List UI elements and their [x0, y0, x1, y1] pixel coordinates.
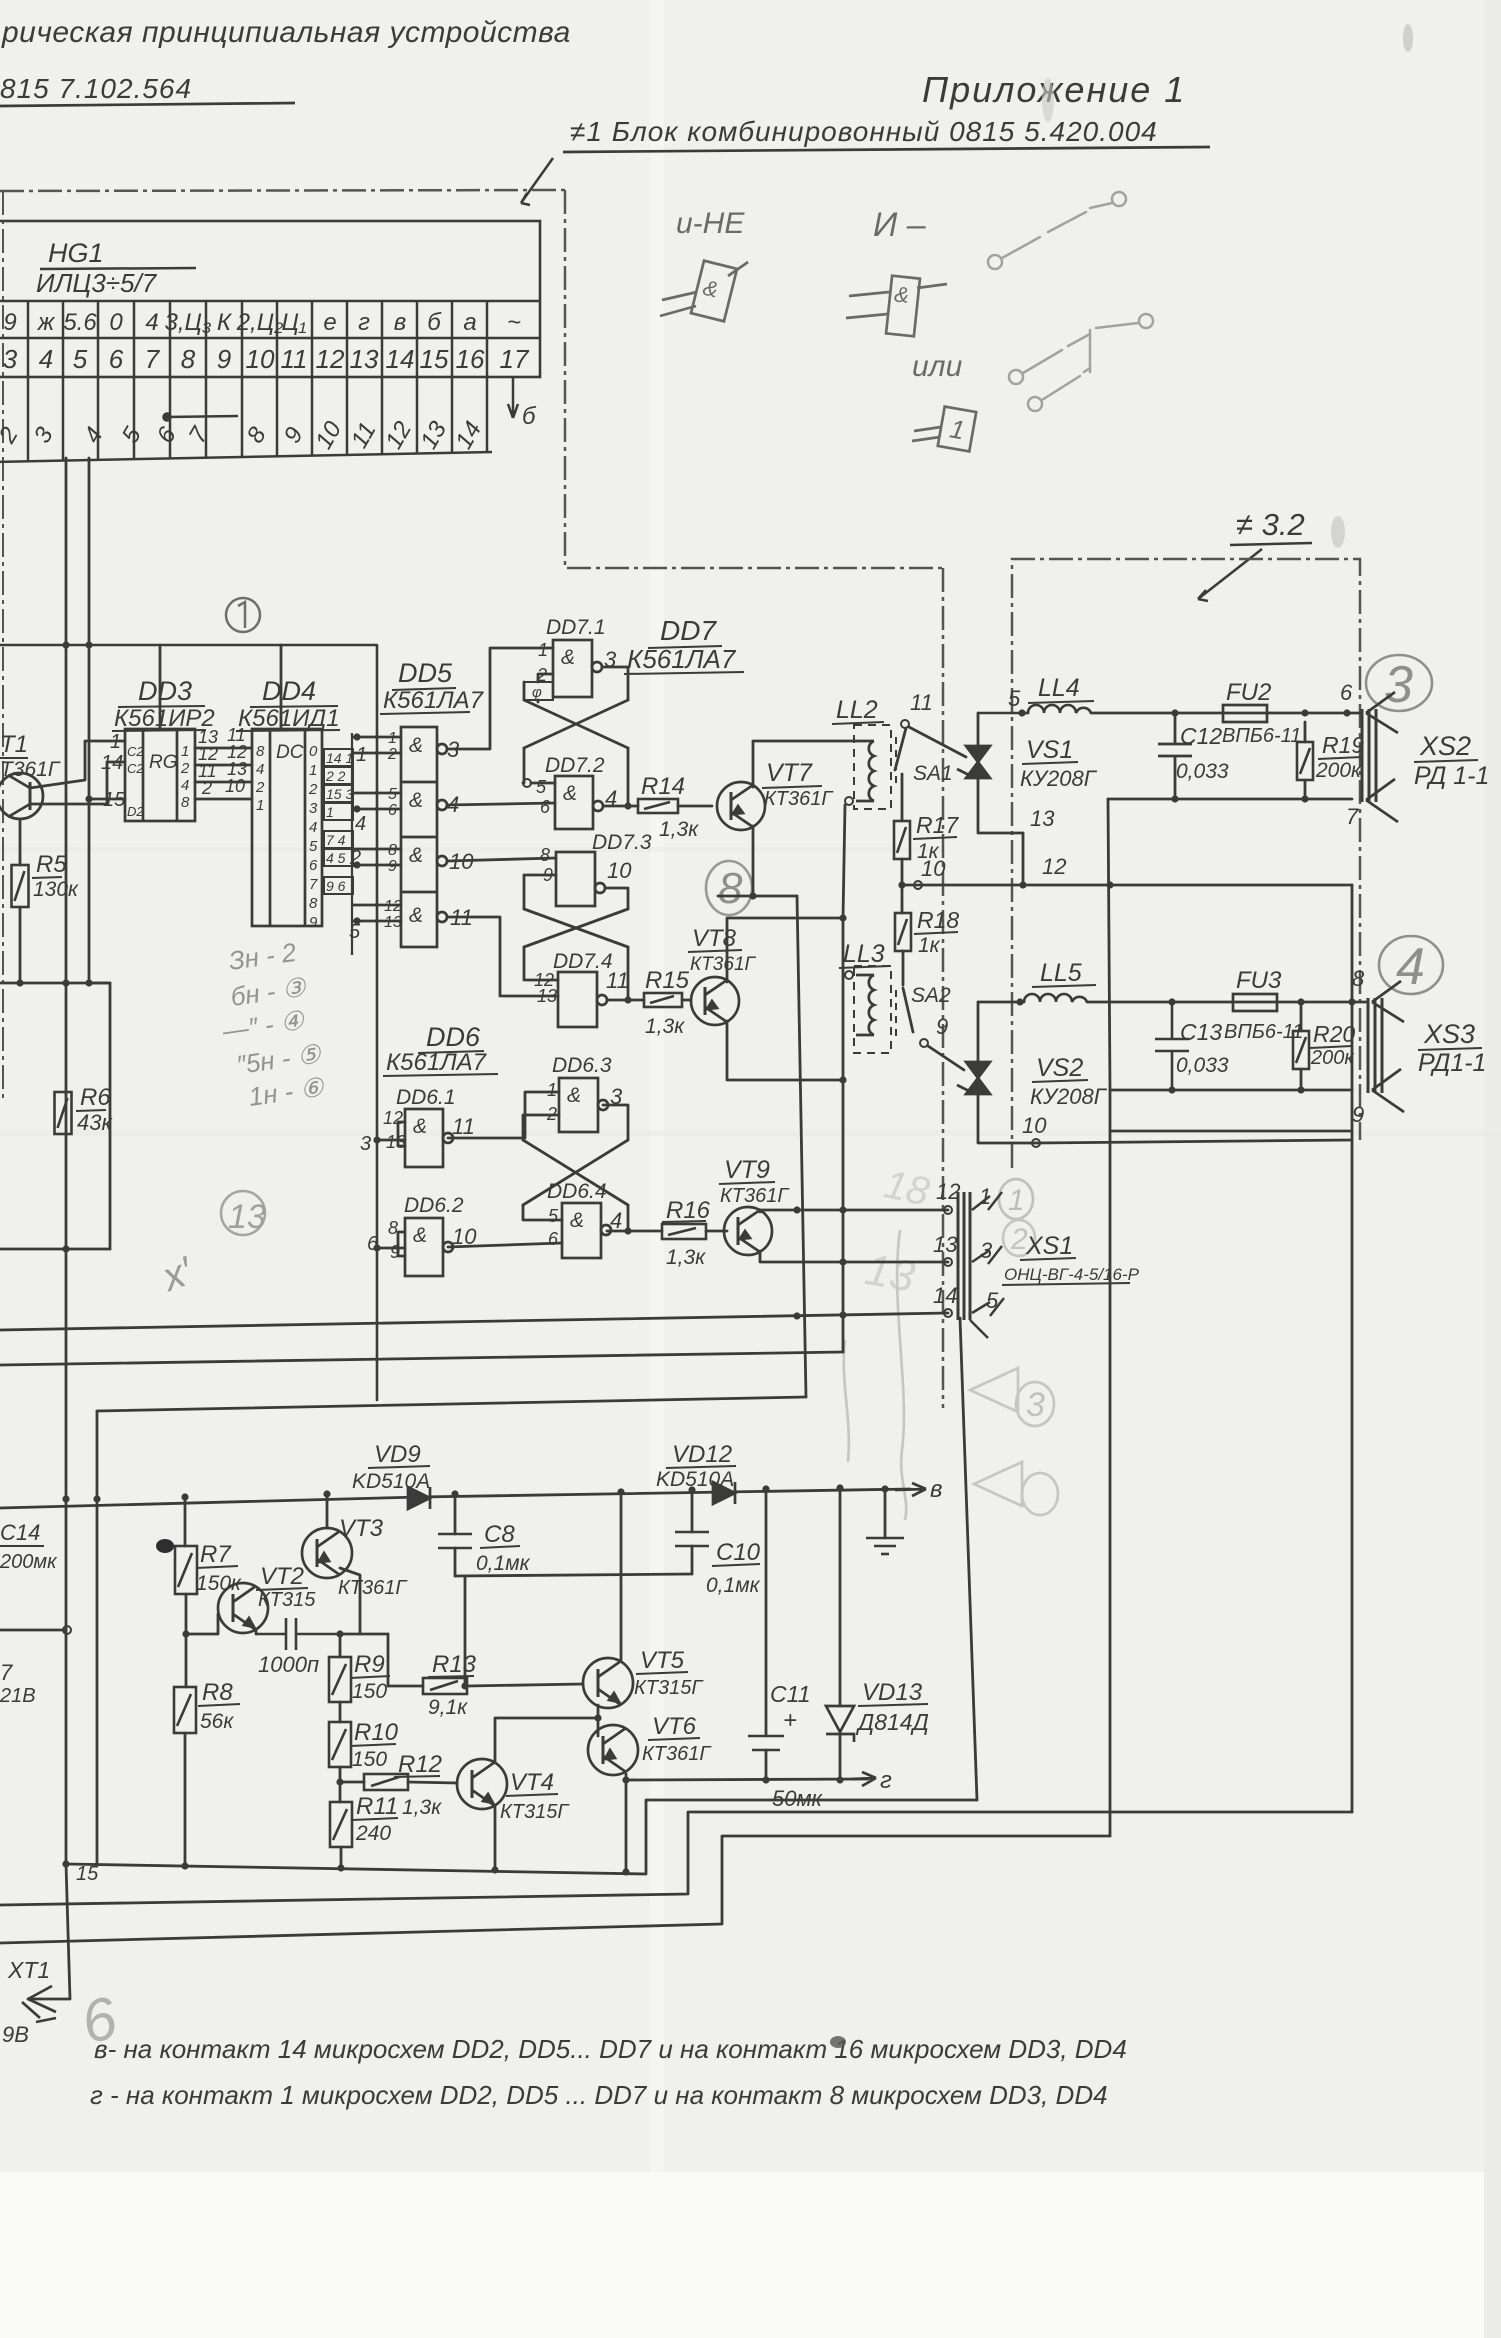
svg-text:56к: 56к [200, 1710, 234, 1733]
svg-text:Приложение 1: Приложение 1 [922, 69, 1186, 110]
wire C8 down [454, 1548, 457, 1576]
svg-text:3: 3 [309, 800, 318, 817]
svg-text:6: 6 [548, 1229, 559, 1249]
svg-text:R5: R5 [36, 851, 67, 878]
fuse FU3 [1233, 994, 1277, 1011]
junction DD7.2 out [624, 802, 631, 809]
wire phi box to cross [523, 682, 526, 700]
wire R7 to R8 [185, 1594, 188, 1687]
svg-text:ИЛЦ3÷5/7: ИЛЦ3÷5/7 [36, 268, 158, 298]
wire DD6.3 pin2 from cross [523, 1115, 559, 1140]
wire VS1 anode to node 5 [978, 712, 1022, 715]
svg-text:R14: R14 [641, 773, 685, 800]
wire VT8 emitter to V2 [727, 1021, 843, 1080]
resistor R7 body [175, 1546, 197, 1594]
svg-text:VT7: VT7 [766, 759, 813, 787]
svg-text:0,033: 0,033 [1176, 1054, 1229, 1077]
hand sketch OR box [912, 407, 976, 452]
wire vertical V1 emitter bus [797, 896, 806, 1397]
svg-text:815 7.102.564: 815 7.102.564 [0, 73, 192, 104]
terminal SA1 contact 11 [901, 720, 909, 728]
underline doc number [0, 103, 295, 106]
wire SA1 blade [895, 728, 906, 770]
diode VD12 [713, 1482, 735, 1504]
display HG1 outer box [0, 221, 540, 377]
wire VT1 emitter to R5 [19, 819, 22, 865]
svg-text:0,033: 0,033 [1176, 760, 1229, 783]
junction bus/DD6.1 [373, 1136, 380, 1143]
wires to DD5 gate2 inputs [353, 793, 401, 809]
pencil notes near DD4 [220, 937, 327, 1112]
svg-text:6: 6 [388, 802, 397, 819]
wire W2 mid [1091, 712, 1223, 715]
transistor VT3 [302, 1528, 352, 1578]
wire x97 down to VD bus [96, 1411, 99, 1864]
svg-text:8: 8 [181, 344, 196, 374]
svg-text:C8: C8 [484, 1521, 515, 1548]
svg-text:13: 13 [384, 914, 402, 931]
svg-text:9: 9 [217, 344, 231, 374]
svg-text:13: 13 [862, 1245, 919, 1302]
svg-text:XS1: XS1 [1025, 1232, 1073, 1260]
resistor R11 body [330, 1802, 352, 1847]
block 1 dash-dot border right lower [942, 568, 945, 1408]
svg-text:200мк: 200мк [0, 1551, 58, 1573]
svg-text:&: & [409, 904, 423, 927]
svg-text:21B: 21B [0, 1685, 36, 1707]
wire R11 to bus E [340, 1847, 343, 1868]
wire left loop down [1108, 799, 1110, 1090]
wire DD5 out11 to DD7.4 pin13 [447, 917, 558, 996]
svg-text:рическая принципиальная устрой: рическая принципиальная устройства [1, 16, 571, 49]
wire VS2 to LL5 [978, 1001, 1020, 1004]
pointer line to block 3.2 [1198, 549, 1262, 601]
wire vertical V2 upper [843, 805, 845, 918]
svg-text:5: 5 [548, 1206, 559, 1226]
svg-text:1: 1 [538, 640, 548, 660]
svg-text:KD510A: KD510A [352, 1470, 430, 1493]
terminal LL2 bottom [845, 797, 853, 805]
svg-text:1: 1 [326, 804, 334, 820]
svg-text:2: 2 [308, 781, 318, 798]
wire VS2 cathode to 10 [978, 1094, 1036, 1143]
hand sketch NAND box [660, 261, 748, 322]
wire bus2 long [0, 1352, 843, 1365]
svg-text:&: & [570, 1209, 584, 1232]
svg-text:DD3: DD3 [138, 676, 192, 706]
svg-text:1к: 1к [918, 934, 941, 957]
resistor R15 body [644, 993, 682, 1007]
wire C8-C10 return [455, 1574, 692, 1576]
svg-text:FU3: FU3 [1236, 967, 1282, 994]
terminal DD7.2 pin5 [523, 779, 531, 787]
wire R10-R11 [339, 1767, 342, 1802]
wire R9-R10 [339, 1702, 342, 1722]
svg-text:&: & [563, 782, 577, 805]
svg-text:50мк: 50мк [772, 1786, 824, 1811]
svg-text:13: 13 [933, 1232, 958, 1257]
wire to R9 [339, 1634, 342, 1657]
svg-text:2 2: 2 2 [325, 768, 346, 784]
svg-text:LL5: LL5 [1040, 959, 1082, 987]
gate DD6.2 [405, 1218, 453, 1276]
transistor VT6 [588, 1725, 638, 1775]
svg-text:&: & [413, 1224, 427, 1247]
wire DD7.1 pin2 to phi box [538, 674, 553, 682]
svg-text:~: ~ [507, 309, 521, 336]
svg-text:VD12: VD12 [672, 1441, 732, 1468]
svg-text:VT6: VT6 [652, 1713, 697, 1740]
wire to R12 [340, 1781, 364, 1784]
wire contact 9 to VS2 gate [928, 1046, 964, 1070]
svg-text:7: 7 [145, 344, 161, 374]
svg-text:4: 4 [309, 819, 317, 836]
svg-text:9: 9 [936, 1014, 948, 1039]
wire right vertical to bus B [1351, 885, 1354, 1812]
svg-text:DD7.2: DD7.2 [545, 754, 605, 777]
svg-text:6: 6 [309, 857, 318, 874]
wire cross DD6.3-DD6.4 [523, 1140, 628, 1205]
svg-text:4 5: 4 5 [326, 850, 346, 866]
svg-text:0: 0 [109, 309, 123, 336]
gate DD6.3 [559, 1078, 608, 1132]
wire box bottom [1110, 1130, 1352, 1133]
svg-text:2: 2 [387, 746, 397, 763]
inductor LL4 [1028, 705, 1091, 713]
svg-text:VT5: VT5 [640, 1647, 685, 1674]
wire VT9 emitter to XS1 13 [760, 1251, 948, 1262]
svg-text:9: 9 [309, 914, 318, 931]
wire bus to logic block [0, 645, 377, 1400]
svg-text:5: 5 [309, 838, 318, 855]
svg-text:&: & [413, 1115, 427, 1138]
wire VT3 collector down [340, 1568, 360, 1634]
inductor LL5 [1024, 994, 1087, 1002]
svg-text:1: 1 [110, 731, 121, 753]
capacitor C8 [438, 1534, 472, 1548]
pencil circled 4 (right) [1379, 936, 1443, 994]
wire bus to R7 [184, 1497, 187, 1546]
svg-text:VD9: VD9 [374, 1441, 421, 1468]
wire cross DD7.1-DD7.2 [524, 700, 628, 748]
wire horizontal y983 [0, 982, 110, 985]
resistor R17 body [894, 821, 910, 859]
resistor R5 body [12, 865, 29, 907]
wire W2 right [1267, 712, 1362, 715]
wires to DD5 gate4 inputs [353, 905, 401, 921]
resistor R14 body [638, 799, 678, 813]
wires to DD5 gate1 inputs [353, 737, 401, 753]
wire vertical VB [88, 458, 91, 983]
wire R5 to y983 [19, 907, 22, 983]
svg-text:9,1к: 9,1к [428, 1696, 468, 1719]
svg-text:SA2: SA2 [911, 984, 951, 1007]
svg-text:240: 240 [355, 1822, 391, 1845]
svg-text:XS2: XS2 [1419, 731, 1471, 761]
svg-text:е: е [323, 309, 336, 336]
svg-text:VT3: VT3 [339, 1515, 384, 1542]
wire VT7 collector to LL2 [753, 741, 864, 787]
block 1 dash-dot border left [2, 191, 4, 1100]
svg-text:3,Ц₃: 3,Ц₃ [165, 309, 212, 336]
svg-text:DD7.4: DD7.4 [553, 950, 613, 973]
wire return to VT5 base node [464, 1576, 467, 1686]
resistor R12 body [364, 1774, 408, 1790]
svg-text:11: 11 [606, 968, 629, 993]
svg-text:DD6.3: DD6.3 [552, 1054, 612, 1077]
svg-text:FU2: FU2 [1226, 679, 1271, 706]
svg-text:12: 12 [1042, 854, 1066, 879]
thyristor VS2 [957, 1062, 990, 1094]
junction R13/C8C10 return [461, 1682, 468, 1689]
svg-text:5: 5 [73, 344, 88, 374]
pencil circled node 13 [221, 1191, 265, 1235]
svg-text:б: б [427, 309, 442, 336]
svg-text:3: 3 [1384, 656, 1413, 714]
wire VT9 collector to XS1 12 [760, 1210, 948, 1212]
svg-text:КТ361Г: КТ361Г [720, 1185, 790, 1207]
hand sketch AND box [846, 276, 947, 337]
svg-text:DD7.1: DD7.1 [546, 616, 606, 639]
svg-text:КТ315Г: КТ315Г [500, 1801, 570, 1823]
junction VA/bus [62, 641, 69, 648]
svg-text:КТ315: КТ315 [258, 1589, 316, 1611]
svg-text:3: 3 [360, 1133, 371, 1155]
ink blot on note line [830, 2036, 846, 2048]
wire VT6 emitter to bus E [625, 1774, 628, 1872]
svg-text:8: 8 [256, 743, 265, 760]
svg-text:13: 13 [228, 1198, 266, 1236]
svg-text:7: 7 [0, 1660, 13, 1685]
transistor VT9 [724, 1207, 772, 1255]
svg-text:8: 8 [540, 845, 550, 865]
relay coil LL3 dashed frame [854, 966, 891, 1053]
switch SA2 link (dashed) [895, 990, 897, 1038]
svg-text:R8: R8 [202, 1679, 233, 1706]
connector XS2 bars [1362, 709, 1376, 802]
wire vertical V2 lower [842, 918, 845, 1352]
display lead cells below [0, 377, 492, 462]
svg-text:1,3к: 1,3к [659, 818, 699, 841]
wire R19 leads [1304, 722, 1307, 799]
wire R13 to VT5 base [467, 1684, 583, 1686]
svg-text:2: 2 [255, 779, 265, 796]
gate DD7.2 [555, 776, 603, 829]
wire DD5 out3 to DD7.1 [447, 648, 553, 749]
svg-text:VT8: VT8 [692, 925, 737, 952]
diode VD9 [408, 1487, 430, 1509]
wire C10 down [691, 1546, 694, 1574]
wire cross to DD7.4 pin12 [524, 947, 558, 980]
svg-text:DD6.1: DD6.1 [396, 1086, 456, 1109]
wire DD4 top to bus [280, 645, 283, 729]
svg-text:&: & [561, 646, 575, 669]
svg-text:R7: R7 [200, 1541, 232, 1568]
svg-text:≠1 Блок комбинировонный 081: ≠1 Блок комбинировонный 0815 5.420.004 [570, 116, 1158, 147]
svg-text:4: 4 [1396, 938, 1425, 996]
svg-text:8: 8 [181, 794, 190, 811]
svg-text:R18: R18 [917, 907, 959, 933]
capacitor C12 [1158, 713, 1192, 799]
zener diode VD13 [826, 1706, 854, 1742]
wire R16 to VT9 base [706, 1230, 727, 1233]
svg-text:5: 5 [349, 921, 361, 943]
svg-text:DD7.3: DD7.3 [592, 831, 652, 854]
transistor VT7 [717, 782, 765, 830]
svg-text:11: 11 [281, 344, 308, 374]
wire VD bus [0, 1489, 910, 1508]
svg-text:и-НЕ: и-НЕ [676, 207, 745, 240]
wire contact 11 to VS1 gate [909, 727, 966, 757]
svg-text:&: & [893, 281, 910, 307]
svg-text:5.6: 5.6 [63, 309, 97, 336]
wire vertical at mini box column [351, 733, 353, 955]
svg-text:9: 9 [388, 858, 397, 875]
wire W4 mid [1087, 1001, 1233, 1004]
svg-text:KD510A: KD510A [656, 1468, 734, 1491]
transistor VT1 [0, 773, 43, 819]
wire bus A staircase [66, 1800, 977, 1874]
svg-text:10: 10 [607, 858, 632, 883]
svg-text:7 4: 7 4 [326, 832, 346, 848]
svg-text:&: & [567, 1084, 581, 1107]
IC DD5 gate column [401, 727, 447, 947]
relay coil LL2 dashed frame [854, 725, 891, 809]
svg-text:в: в [930, 1476, 943, 1503]
svg-text:17: 17 [500, 344, 530, 374]
svg-text:15: 15 [76, 1863, 99, 1885]
wire cross to DD7.2 pin5 [523, 748, 524, 783]
wire W4 right [1277, 1001, 1368, 1004]
svg-text:R13: R13 [432, 1651, 477, 1678]
wire VS1 anode up [977, 713, 980, 746]
resistor R9 body [329, 1657, 351, 1702]
svg-text:16: 16 [456, 344, 485, 374]
svg-text:8: 8 [388, 1218, 398, 1238]
svg-text:2: 2 [180, 760, 190, 777]
svg-text:1: 1 [1008, 1184, 1025, 1217]
junction VA/y1249 [62, 1245, 69, 1252]
wire stub [65, 1093, 68, 1096]
connector XS3 pin arrows [1372, 981, 1404, 1112]
pencil circled node 8 [706, 861, 752, 915]
gate DD7.1 phi input box [524, 682, 553, 700]
svg-text:VT9: VT9 [724, 1156, 770, 1184]
pencil triangles and circles lower right [844, 1230, 1058, 1520]
svg-text:4: 4 [256, 761, 264, 778]
svg-text:SA1: SA1 [913, 762, 953, 785]
svg-text:R19: R19 [1322, 732, 1364, 758]
svg-text:8: 8 [718, 864, 743, 913]
svg-text:КУ208Г: КУ208Г [1020, 766, 1098, 791]
svg-text:КТ361Г: КТ361Г [642, 1743, 712, 1765]
svg-text:43к: 43к [77, 1110, 113, 1135]
capacitor C11 (electrolytic) [748, 1736, 784, 1750]
wire DD6.2 out to DD6.4 pin6 [448, 1243, 562, 1247]
block 3.2 dash-dot border [1012, 559, 1360, 1168]
wire to DD6.2 inputs [377, 1247, 405, 1250]
wire bus to C8 [454, 1494, 457, 1534]
terminal 12 [944, 1206, 952, 1214]
svg-text:VS2: VS2 [1036, 1054, 1083, 1082]
wire R18 to SA2 [902, 951, 905, 985]
wire 13 down to W1 [1022, 833, 1025, 885]
underline block name [563, 147, 1210, 152]
svg-text:или: или [912, 350, 963, 383]
wire DD6.1 out to DD6.3 [448, 1092, 559, 1138]
svg-text:Д814Д: Д814Д [855, 1709, 929, 1735]
underline 3.2 [1230, 543, 1312, 545]
svg-text:DD6.2: DD6.2 [404, 1194, 464, 1217]
connector XS3 bars [1368, 998, 1382, 1093]
svg-text:Ц₁: Ц₁ [281, 309, 306, 336]
wire W1 node 10-12 [902, 884, 1352, 887]
pointer line to block 1 [521, 158, 553, 205]
wire DD7.1 out down [602, 667, 628, 700]
svg-text:C12: C12 [1180, 723, 1222, 749]
terminal 13 [944, 1258, 952, 1266]
junction VB/y983 [85, 979, 92, 986]
svg-text:DD6: DD6 [426, 1022, 481, 1052]
svg-text:9: 9 [1352, 1102, 1364, 1127]
wire node to R18 [901, 885, 904, 913]
svg-text:&: & [409, 789, 423, 812]
wire to node b with arrow [508, 377, 518, 418]
svg-text:ж: ж [37, 309, 56, 336]
resistor R20 body [1293, 1031, 1309, 1069]
transistor VT8 [691, 977, 739, 1025]
transistor VT5 [583, 1658, 633, 1708]
paper smudge top right [1042, 78, 1054, 122]
svg-text:3: 3 [3, 344, 18, 374]
svg-text:4: 4 [610, 1208, 622, 1233]
svg-text:10: 10 [921, 856, 946, 881]
svg-text:1,3к: 1,3к [402, 1796, 442, 1819]
svg-text:14: 14 [386, 344, 415, 374]
svg-text:КТ361Г: КТ361Г [338, 1577, 408, 1599]
svg-text:5: 5 [536, 777, 547, 797]
junction VT8 collector/V2 [839, 914, 846, 921]
gate DD6.1 [405, 1109, 453, 1167]
svg-text:12: 12 [384, 898, 402, 915]
wire VS2 anode up [977, 1002, 980, 1062]
wire jog in lead cells [164, 414, 239, 421]
svg-text:6: 6 [109, 344, 124, 374]
wire DD3 top to bus [159, 645, 162, 729]
wire vertical x1110 [1109, 1090, 1112, 1836]
pencil sketch switch contact A [988, 192, 1126, 269]
svg-text:T1: T1 [0, 731, 28, 758]
svg-text:КТ361Г: КТ361Г [690, 954, 757, 975]
svg-text:8: 8 [309, 895, 318, 912]
wire DD7.2 out to R14 [603, 805, 638, 808]
svg-text:2,Ц₂: 2,Ц₂ [236, 309, 284, 336]
connector XT1 arrow [22, 1986, 56, 2018]
svg-text:XT1: XT1 [7, 1957, 50, 1983]
junction VT7 emitter node 8 [749, 892, 756, 899]
svg-text:Т361Г: Т361Г [0, 758, 61, 781]
junction 15 [62, 1860, 69, 1867]
block 1 dash-dot border right upper [565, 190, 943, 568]
fuse FU2 [1223, 705, 1267, 722]
svg-text:&: & [409, 844, 423, 867]
svg-text:15: 15 [420, 344, 449, 374]
svg-text:4: 4 [39, 344, 53, 374]
resistor R19 body [1297, 742, 1313, 780]
wire DD7.3 pin9 to cross [524, 875, 556, 909]
gate DD7.4 [558, 972, 607, 1027]
wire bus C staircase [0, 1836, 1110, 1943]
